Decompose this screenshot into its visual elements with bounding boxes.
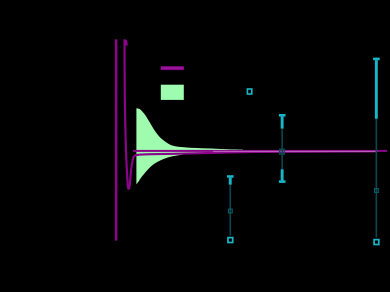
errorbar B top cap: [279, 114, 286, 117]
horizontal asymptote line: [133, 150, 387, 152]
errorbar A cap: [227, 175, 234, 178]
errorbar B dark point square: [280, 149, 285, 154]
errorbar A point marker: [228, 238, 233, 243]
errorbar C bright whisker: [375, 60, 378, 119]
errorbar A dark bar: [229, 185, 231, 236]
errorbar B bottom bright whisker: [281, 169, 284, 180]
legend patch swatch: [161, 85, 184, 100]
legend marker square: [247, 89, 251, 94]
legend line swatch: [161, 66, 184, 70]
curve spike top curl: [125, 40, 126, 45]
errorbar C dark bar: [376, 119, 378, 238]
errorbar C cap: [373, 58, 380, 61]
bright core of merged line: [213, 151, 378, 152]
errorbar C mini square: [375, 189, 379, 193]
errorbar C point marker: [374, 240, 379, 245]
green envelope band (shaded region): [136, 108, 243, 184]
errorbar B dark bar: [281, 129, 283, 170]
curve: spike and relaxation: [125, 39, 378, 189]
errorbar A mini square: [228, 209, 232, 213]
errorbar B top bright whisker: [281, 117, 284, 129]
vertical asymptote line: [115, 39, 118, 240]
errorbar B bottom cap: [279, 180, 286, 183]
errorbar A bright whisker: [229, 178, 232, 185]
